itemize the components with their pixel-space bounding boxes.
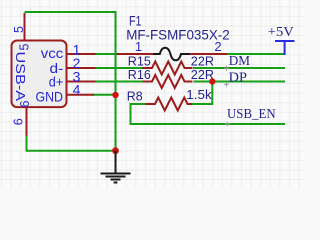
svg-text:5: 5 bbox=[17, 43, 31, 50]
pin 4 GND stub bbox=[67, 94, 95, 96]
wire d- from pin2 to R15 bbox=[95, 67, 143, 69]
wire +5V from fuse to supply bbox=[227, 53, 285, 55]
svg-text:R8: R8 bbox=[127, 89, 143, 104]
wire DP from R16 to label end bbox=[194, 81, 286, 83]
power +5V symbol bbox=[275, 40, 295, 42]
junction dot at GND pin4 / trunk bbox=[112, 92, 118, 98]
pin 6 shield stub bbox=[26, 108, 28, 137]
svg-text:1.5k: 1.5k bbox=[186, 87, 212, 102]
svg-text:USB-A: USB-A bbox=[13, 52, 28, 102]
resistor R8 bbox=[146, 98, 193, 111]
fuse F1 stub right bbox=[190, 53, 227, 55]
fuse F1 stub left bbox=[117, 53, 153, 55]
svg-text:5: 5 bbox=[12, 26, 26, 33]
pin 1 vcc stub bbox=[67, 53, 96, 55]
wire DM from R15 to label end bbox=[193, 67, 285, 69]
pin 5 shield stub bbox=[24, 13, 26, 41]
background grid bbox=[0, 0, 304, 188]
ground symbol bbox=[115, 151, 117, 173]
svg-text:+5V: +5V bbox=[268, 25, 294, 40]
svg-text:DM: DM bbox=[229, 53, 250, 68]
svg-text:MF-FSMF035X-2: MF-FSMF035X-2 bbox=[126, 26, 230, 42]
pin 2 d- stub bbox=[67, 67, 96, 69]
svg-text:4: 4 bbox=[73, 82, 81, 98]
wire R8 left to USB_EN net bbox=[131, 104, 286, 124]
svg-text:vcc: vcc bbox=[41, 45, 64, 61]
junction dot at ground node bbox=[112, 147, 119, 154]
label anchor cross DP bbox=[224, 82, 229, 87]
wire vcc from pin1 to fuse bbox=[95, 53, 117, 55]
pin 3 d+ stub bbox=[67, 81, 96, 83]
svg-text:GND: GND bbox=[36, 88, 64, 104]
junction dot at DP / R8 bbox=[209, 78, 215, 84]
connector J1 USB-A body bbox=[12, 41, 67, 108]
svg-text:d+: d+ bbox=[49, 74, 64, 90]
resistor R15 bbox=[143, 62, 193, 75]
wire d+ from pin3 to R16 bbox=[95, 81, 143, 83]
svg-text:6: 6 bbox=[18, 100, 32, 107]
svg-text:USB_EN: USB_EN bbox=[227, 106, 276, 121]
wire R8 right up to DP junction bbox=[190, 82, 212, 104]
label anchor cross USB_EN bbox=[225, 122, 230, 127]
resistor R16 bbox=[143, 75, 193, 88]
svg-text:6: 6 bbox=[12, 118, 26, 125]
wire main: shield top, vertical trunk to ground bbox=[25, 12, 116, 151]
fuse F1 body bbox=[153, 48, 191, 61]
label anchor cross DM bbox=[224, 66, 229, 71]
wire gnd pin4 to main vertical bbox=[93, 94, 116, 96]
svg-text:DP: DP bbox=[229, 69, 247, 84]
wire pin6 to ground trunk bbox=[27, 136, 116, 151]
svg-text:R16: R16 bbox=[128, 67, 151, 82]
